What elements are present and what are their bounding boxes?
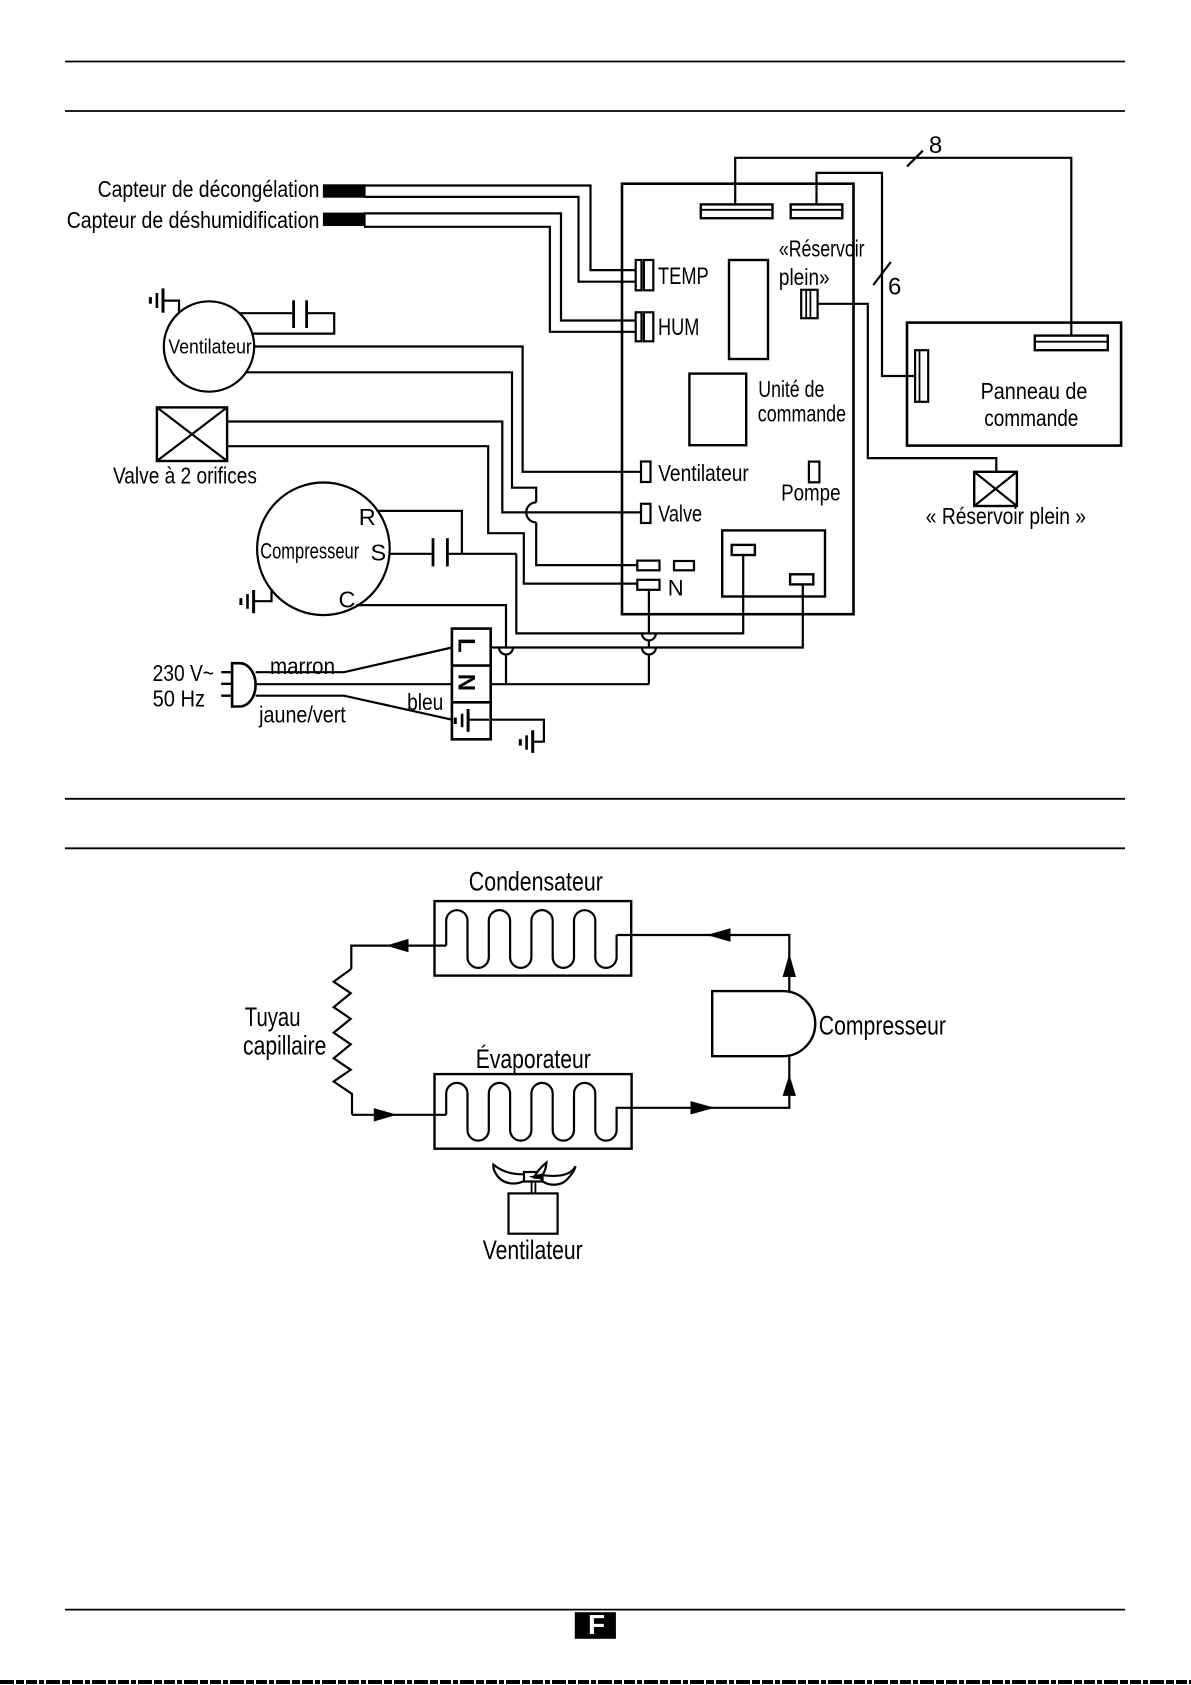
svg-text:Compresseur: Compresseur: [260, 539, 359, 564]
svg-text:Ventilateur: Ventilateur: [483, 1235, 583, 1265]
wire: valve output A to board Valve input: [227, 422, 641, 513]
middle blade: [534, 1163, 546, 1178]
sensor 2 (dehumidification sensor) body: [323, 213, 366, 226]
middle blade tail wedge: [529, 1173, 543, 1179]
right blade: [543, 1166, 576, 1185]
svg-text:Ventilateur: Ventilateur: [168, 336, 252, 358]
svg-text:230 V~: 230 V~: [153, 660, 214, 686]
svg-text:Unité de: Unité de: [758, 376, 824, 402]
tall component rectangle on board: [729, 260, 768, 359]
top rule 2: [65, 110, 1125, 112]
wire 6: bar2 to panel connector: [817, 173, 916, 376]
svg-text:TEMP: TEMP: [658, 263, 709, 290]
svg-text:«Réservoir: «Réservoir: [779, 235, 865, 261]
wire: sensor 2 to HUM connector: [364, 213, 636, 331]
board tab A: [637, 561, 659, 571]
svg-text:HUM: HUM: [658, 314, 699, 341]
evaporator coil: [446, 1083, 631, 1141]
svg-text:Évaporateur: Évaporateur: [476, 1044, 591, 1074]
svg-text:commande: commande: [758, 401, 846, 427]
wire: jaune/vert (earth) plug to earth cell: [256, 696, 452, 720]
relay tab 1: [732, 545, 755, 555]
arrow left toward condenser: [707, 928, 731, 941]
wire: bleu (blue) plug to N cell: [256, 683, 452, 685]
footer F badge: [575, 1612, 616, 1639]
control panel (Panneau de commande) box: [907, 323, 1121, 446]
panel connector bar: [1035, 336, 1108, 351]
wire: N cell to board N tab (with two hops): [491, 590, 649, 684]
earth cell ground symbol: [454, 718, 457, 724]
svg-text:Valve: Valve: [658, 500, 702, 526]
wire hop (C wire over L wire): [499, 648, 513, 655]
svg-text:marron: marron: [270, 653, 335, 679]
top rule 1: [65, 61, 1125, 63]
middle rule 2: [65, 847, 1125, 849]
float switch « Réservoir plein » (box with X): [974, 472, 1017, 506]
board Ventilateur tab: [641, 462, 651, 483]
pipe: evaporator to compressor (with right arrow): [632, 1056, 790, 1108]
svg-text:Ventilateur: Ventilateur: [658, 460, 749, 486]
wire: R terminal to run capacitor: [377, 511, 462, 554]
sensor 1 (defrost sensor) body: [323, 184, 366, 197]
wire hop (fan B over valve wire): [526, 502, 536, 522]
wire: sensor 1 to TEMP connector: [364, 186, 636, 282]
terminal block TB1 (L / N / earth): [452, 629, 491, 740]
arrow up into compressor: [783, 1075, 796, 1096]
svg-text:6: 6: [888, 273, 901, 300]
slash mark for 8: [907, 151, 923, 167]
svg-text:8: 8: [929, 132, 942, 159]
pipe: compressor up to condenser line (with up arrow): [617, 935, 790, 991]
board Pompe tab: [809, 462, 820, 483]
ground symbol G1 (fan motor): [150, 288, 179, 313]
wire: earth cell to external ground: [491, 720, 544, 742]
fan hub: [524, 1172, 542, 1182]
fan icon below evaporator: [493, 1163, 575, 1234]
svg-text:50 Hz: 50 Hz: [153, 686, 205, 712]
relay box on board: [722, 530, 825, 596]
svg-text:jaune/vert: jaune/vert: [258, 702, 346, 728]
svg-text:Tuyau: Tuyau: [245, 1002, 301, 1032]
wire hop (N over wire1): [642, 633, 656, 640]
board N tab: [637, 580, 659, 590]
wire: valve output B to board N tab: [227, 446, 637, 583]
TEMP connector: [636, 260, 654, 290]
svg-text:F: F: [588, 1609, 605, 1640]
svg-text:« Réservoir plein »: « Réservoir plein »: [926, 503, 1086, 529]
capacitor C2 (compressor run capacitor): [389, 538, 516, 566]
slash mark for 6: [873, 262, 891, 285]
svg-text:Valve à 2 orifices: Valve à 2 orifices: [113, 463, 257, 489]
valve V1: Valve à 2 orifices (box with X): [157, 407, 227, 461]
condenser coil: [446, 910, 616, 968]
wire hop (N over wire2): [642, 648, 656, 655]
capillary tube zigzag (Tuyau capillaire): [334, 969, 352, 1115]
svg-text:L: L: [453, 638, 480, 653]
svg-text:Compresseur: Compresseur: [819, 1011, 946, 1041]
wire: S/cap junction down to relay tab 1 (wire1): [516, 554, 743, 634]
svg-text:N: N: [453, 674, 480, 691]
svg-text:R: R: [359, 504, 376, 530]
control board (Unité de commande) outline: [622, 184, 854, 615]
svg-text:plein»: plein»: [779, 264, 830, 290]
wire: fan motor output A to board Ventilateur input: [254, 347, 641, 472]
panel left connector: [915, 350, 928, 402]
Unité de commande square: [689, 374, 746, 446]
wire: reservoir connector to float switch: [818, 304, 997, 472]
ground symbol G4 (mains earth): [520, 730, 532, 753]
svg-text:N: N: [668, 575, 684, 600]
evaporator box: [435, 1074, 632, 1149]
pipe: capillary to evaporator (with right arrow): [352, 1114, 446, 1116]
wire 8: bar1 to panel bar: [735, 158, 1071, 336]
middle rule 1: [65, 798, 1125, 800]
motor M2: Compresseur circle: [257, 483, 390, 616]
board tab B: [674, 561, 694, 570]
board Valve tab: [641, 504, 651, 523]
fan shaft: [531, 1183, 533, 1194]
HUM connector: [636, 312, 654, 341]
ground symbol G2 (compressor): [241, 589, 272, 613]
svg-text:Capteur de déshumidification: Capteur de déshumidification: [67, 207, 320, 233]
compressor body (D shape): [712, 991, 815, 1056]
svg-text:C: C: [339, 587, 356, 613]
svg-text:Capteur de décongélation: Capteur de décongélation: [98, 176, 320, 202]
wire: fan motor output B to board tab A (with hop): [246, 372, 637, 565]
bottom dashed edge: [0, 1680, 1191, 1684]
wire: L cell to relay tab 2 (wire2): [491, 584, 803, 647]
wire: C terminal to N line (with hop over L wire): [356, 605, 506, 684]
svg-text:Condensateur: Condensateur: [469, 867, 603, 897]
motor M1: Ventilateur (fan motor) circle: [164, 301, 254, 391]
reservoir-full connector on board: [801, 290, 817, 318]
bottom rule: [65, 1609, 1125, 1611]
svg-text:Panneau de: Panneau de: [981, 378, 1088, 404]
left blade: [493, 1165, 524, 1184]
svg-text:Pompe: Pompe: [781, 480, 840, 506]
mains plug P1: [221, 663, 255, 706]
board connector bar 1: [701, 204, 773, 218]
relay tab 2: [790, 574, 813, 584]
svg-text:capillaire: capillaire: [243, 1031, 326, 1061]
condenser box: [435, 901, 632, 976]
pipe: condenser to capillary (with left arrow): [351, 946, 446, 969]
svg-text:commande: commande: [984, 405, 1078, 431]
fan motor box: [509, 1193, 558, 1233]
board connector bar 2: [791, 204, 843, 218]
capacitor C1 (fan run capacitor): [239, 300, 334, 333]
svg-text:S: S: [371, 540, 387, 566]
wire: marron (brown) plug to L cell: [256, 648, 452, 673]
